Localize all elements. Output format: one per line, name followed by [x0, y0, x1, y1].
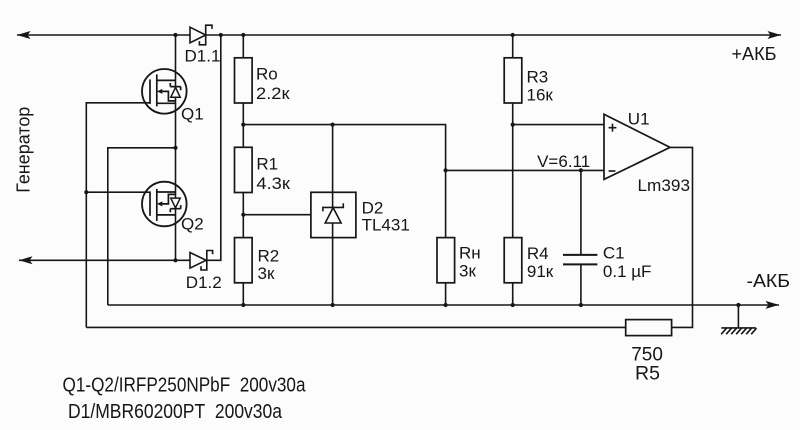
svg-text:R4: R4	[527, 244, 549, 263]
svg-text:91к: 91к	[527, 262, 554, 281]
svg-text:Генератор: Генератор	[13, 107, 34, 193]
svg-text:Q1: Q1	[181, 105, 204, 124]
svg-text:2.2к: 2.2к	[256, 84, 290, 103]
svg-text:3к: 3к	[459, 262, 476, 281]
svg-text:C1: C1	[603, 244, 625, 263]
svg-text:Q1-Q2/IRFP250NPbF 200v30a: Q1-Q2/IRFP250NPbF 200v30a	[63, 375, 307, 397]
svg-text:Q2: Q2	[181, 215, 204, 234]
svg-text:+АКБ: +АКБ	[732, 43, 777, 64]
svg-text:Rн: Rн	[459, 244, 481, 263]
svg-text:D1/MBR60200PT 200v30a: D1/MBR60200PT 200v30a	[68, 401, 283, 423]
svg-text:U1: U1	[628, 110, 650, 129]
svg-text:D1.2: D1.2	[186, 273, 222, 292]
svg-text:TL431: TL431	[362, 216, 410, 235]
svg-text:R3: R3	[527, 68, 549, 87]
svg-text:4.3к: 4.3к	[256, 174, 290, 193]
svg-text:V=6.11: V=6.11	[537, 152, 590, 171]
svg-text:R5: R5	[635, 363, 660, 384]
svg-text:-АКБ: -АКБ	[747, 270, 791, 291]
svg-text:D1.1: D1.1	[185, 47, 221, 66]
svg-text:Ro: Ro	[256, 65, 278, 84]
svg-text:3к: 3к	[258, 264, 275, 283]
svg-text:Lm393: Lm393	[638, 176, 691, 195]
svg-text:R2: R2	[258, 247, 280, 266]
svg-text:16к: 16к	[527, 86, 554, 105]
svg-text:0.1 µF: 0.1 µF	[603, 262, 652, 281]
svg-text:750: 750	[631, 345, 663, 366]
svg-text:R1: R1	[256, 155, 278, 174]
